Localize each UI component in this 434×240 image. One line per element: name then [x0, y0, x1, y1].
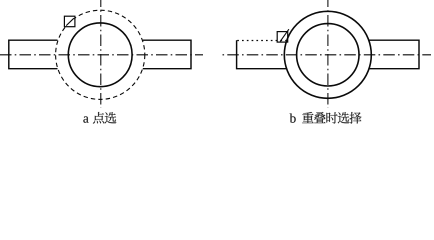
- figure a: left arm outline: [9, 40, 58, 68]
- figure a: outer circle selected (dashed): [56, 10, 145, 99]
- caption a: "a 点选": [83, 112, 116, 124]
- figure b: horizontal centerline: [223, 54, 432, 56]
- figure a: horizontal centerline: [0, 54, 203, 56]
- figure a: right arm outline: [143, 40, 191, 68]
- figure b: right arm outline: [369, 40, 419, 68]
- figure b: pick cursor slash over overlapping entities: [280, 29, 289, 41]
- figure b: left arm left+bottom outline: [237, 40, 287, 68]
- figure b: left arm top edge selected (dotted): [237, 40, 287, 42]
- figure b: outer circle (solid): [284, 11, 371, 98]
- caption b: "b 重叠时选择": [290, 112, 362, 124]
- figure b: inner circle (solid): [297, 24, 359, 86]
- figure a: vertical centerline: [100, 0, 102, 108]
- figure b: pick box cursor: [277, 32, 288, 42]
- figure a: pick box interior mask: [65, 17, 74, 26]
- figure a: dash of selected circle inside pick box: [66, 18, 74, 25]
- figure a: pick box cursor: [64, 16, 75, 27]
- figure b: vertical centerline: [327, 0, 329, 108]
- figure a: inner circle (solid): [68, 23, 132, 87]
